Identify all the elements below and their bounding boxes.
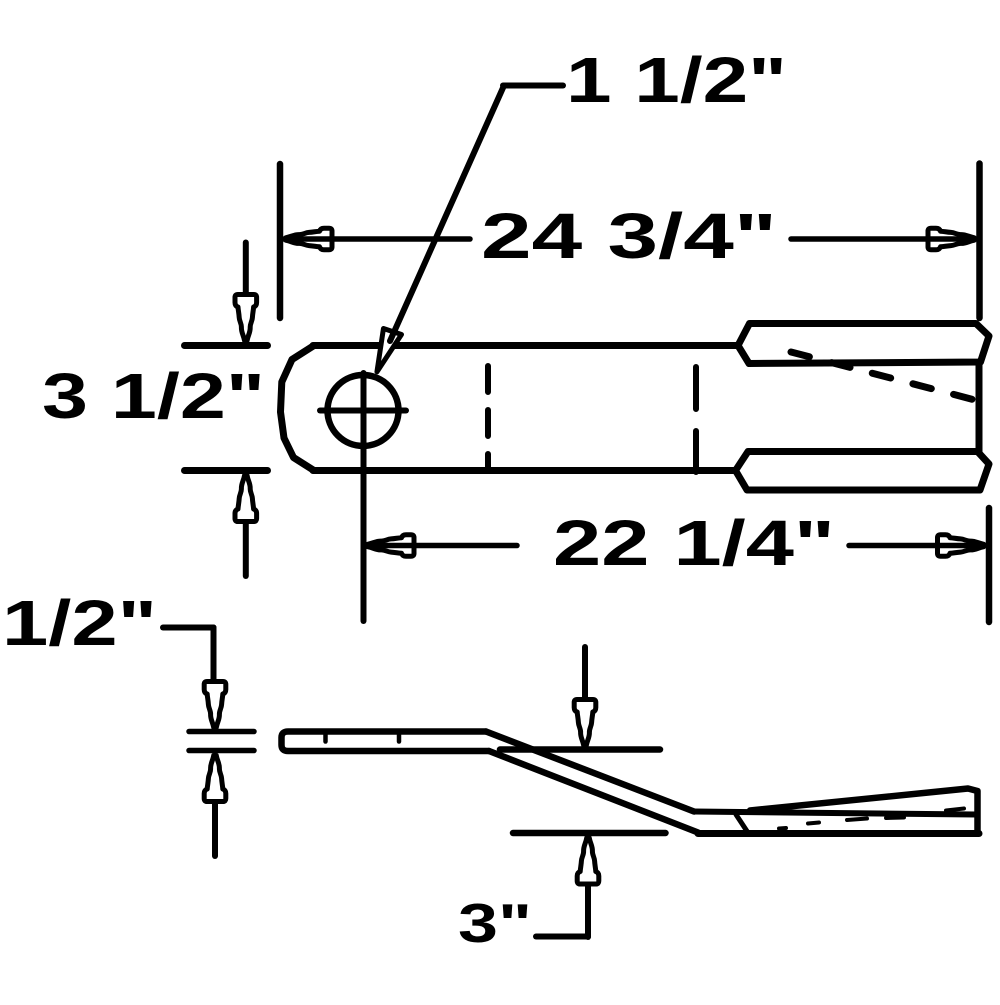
top reference line	[185, 342, 268, 349]
dimension line left segment	[284, 236, 470, 242]
dashed section line 1	[485, 366, 491, 471]
dashed bevel line	[791, 352, 975, 400]
svg-text:1/2": 1/2"	[2, 587, 157, 659]
dashed section line 2	[693, 367, 699, 472]
bottom reference line	[185, 467, 268, 474]
right arrow	[938, 535, 984, 557]
lower arrow tail	[212, 800, 218, 856]
bend bottom diagonal	[489, 751, 698, 833]
top arrow tail	[243, 243, 249, 297]
upper flat bar	[282, 732, 490, 752]
dimension line left segment	[366, 543, 517, 549]
leader vertical	[211, 628, 217, 685]
bottom arrow	[577, 838, 599, 884]
blade top edge	[313, 342, 738, 349]
top arrow tail	[582, 647, 588, 701]
hole crosshair vertical / 22 1/4 left extension	[361, 373, 367, 621]
right section bottom edge	[698, 830, 979, 837]
lower thickness arrow	[204, 756, 226, 802]
hole crosshair horizontal	[320, 408, 406, 414]
top reference line	[500, 746, 660, 753]
right extension line	[976, 164, 983, 319]
upper thickness arrow	[204, 682, 226, 728]
bottom arrow tail	[243, 520, 249, 576]
hole circle	[328, 375, 399, 446]
blade bottom edge	[313, 467, 736, 474]
right extension line	[986, 508, 993, 622]
thickness reference line bottom	[189, 748, 254, 754]
blade rounded left end	[281, 346, 315, 471]
leader to 3 text	[536, 934, 588, 940]
bottom cutting edge wing	[736, 452, 990, 491]
leader arrow	[369, 328, 402, 375]
left extension line	[277, 164, 284, 318]
leader horizontal	[163, 625, 214, 631]
dimension line right segment	[849, 543, 986, 549]
top arrow	[235, 295, 257, 341]
left arrow	[368, 535, 414, 557]
svg-text:3": 3"	[458, 892, 532, 954]
bottom reference line	[513, 830, 666, 837]
svg-text:1 1/2": 1 1/2"	[566, 44, 787, 116]
hole edge tick 2	[397, 733, 402, 742]
svg-text:24 3/4": 24 3/4"	[481, 200, 777, 272]
blade right edge between wings	[976, 362, 983, 452]
leader horizontal	[503, 83, 563, 89]
bottom arrow tail	[585, 883, 591, 937]
top cutting edge wing	[738, 324, 989, 364]
dimension line right segment	[791, 236, 976, 242]
svg-text:22 1/4": 22 1/4"	[553, 507, 835, 579]
svg-text:3 1/2": 3 1/2"	[42, 360, 265, 432]
bend top diagonal	[486, 732, 694, 812]
left arrow	[286, 228, 332, 250]
top arrow	[574, 700, 596, 746]
hole edge tick 1	[323, 733, 328, 742]
bottom arrow	[235, 476, 257, 522]
inner bend line	[736, 815, 749, 834]
leader diagonal	[390, 86, 504, 342]
right section top edge	[694, 812, 976, 815]
right arrow	[928, 228, 974, 250]
taper top edge and right end	[750, 789, 978, 834]
speckle marks	[779, 809, 964, 829]
thickness reference line top	[189, 729, 254, 735]
